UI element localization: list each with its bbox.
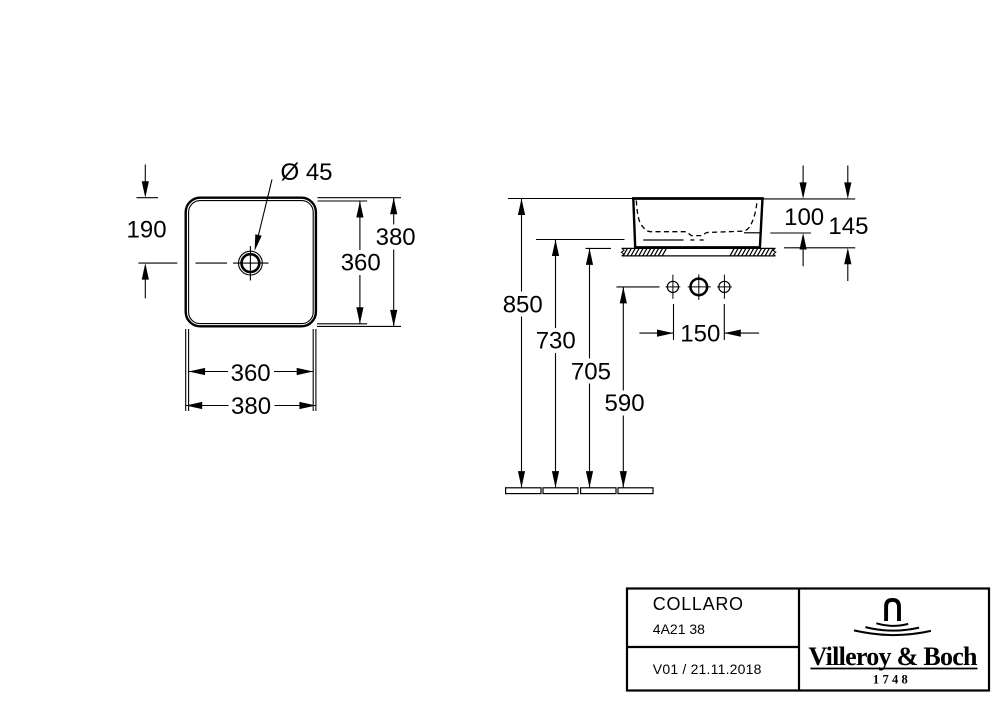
basin outer rim (top view) (186, 198, 316, 327)
bottom dim extension left inner (188, 329, 190, 411)
dim 380 bottom left arrowhead (186, 402, 203, 409)
dim 590 vertical line upper (622, 287, 624, 391)
dim 100 top arrowhead (800, 182, 807, 199)
dim 730 vertical line upper (555, 240, 557, 329)
svg-text:100: 100 (784, 204, 824, 231)
dim 705 bottom arrowhead (586, 471, 593, 488)
dim 150 right extension line (723, 304, 725, 340)
dim 380 vertical line lower (393, 250, 395, 327)
dim 100 top arrow shaft (802, 166, 804, 188)
SIDEVIEW (503, 166, 869, 494)
dim 145 top arrow shaft (847, 166, 849, 188)
logo arch symbol (886, 600, 899, 621)
drain level centerline solid (643, 239, 683, 241)
dim 150 right arrowhead (724, 330, 741, 337)
TITLEBLOCK (627, 589, 989, 691)
svg-text:Ø 45: Ø 45 (281, 159, 333, 186)
dim 150 left arrowhead (657, 330, 674, 337)
drain crosshair vertical (249, 246, 251, 281)
dim 730 bottom arrowhead (552, 471, 559, 488)
countertop hatching left (623, 248, 666, 256)
dim 100 extension line (770, 232, 811, 234)
dim 150 left extension line (673, 304, 675, 340)
dim 100 bottom arrow shaft (802, 245, 804, 267)
drain hole inner circle (242, 254, 260, 272)
title block vertical divider (798, 589, 800, 691)
dim 380 bottom line right (275, 405, 316, 407)
right tap hole crosshair vertical (723, 275, 725, 299)
dim 850 top arrowhead (518, 199, 525, 216)
basin bottom edge (634, 246, 760, 248)
dim 730 vertical line lower (555, 353, 557, 488)
right dim extension inner bottom (317, 323, 367, 325)
logo underline (810, 668, 977, 670)
dim 380 bottom arrowhead (390, 310, 397, 327)
svg-text:705: 705 (571, 358, 611, 385)
svg-text:1748: 1748 (873, 672, 911, 686)
left tap hole crosshair vertical (672, 275, 674, 299)
basin inner rim (top view) (189, 201, 314, 324)
dim 190 bottom arrowhead (142, 263, 149, 280)
right dim extension outer bottom (317, 325, 401, 327)
bottom dim extension left outer (185, 329, 187, 411)
dim 360 bottom line left (189, 371, 228, 373)
right tap hole circle (719, 281, 730, 292)
right dim extension inner top (318, 200, 368, 202)
horizontal centerline dash (196, 262, 228, 264)
countertop hatching right (730, 248, 773, 256)
dim 380 vertical line upper (393, 198, 395, 225)
svg-text:380: 380 (231, 393, 271, 420)
top reference line left of basin (508, 198, 633, 200)
title block outer border (627, 589, 989, 691)
center hole crosshair horizontal (688, 286, 711, 288)
svg-text:V01 / 21.11.2018: V01 / 21.11.2018 (653, 661, 762, 677)
drain crosshair horizontal (233, 262, 269, 264)
dim 145 bottom arrowhead (844, 248, 851, 264)
dim 705 vertical line lower (589, 384, 591, 488)
bottom dim extension right inner (312, 329, 314, 411)
drain level centerline dash 2 (700, 239, 704, 241)
top reference line right of basin (763, 198, 855, 200)
dim 380 bottom right arrowhead (299, 402, 316, 409)
logo ripple 3 (854, 630, 931, 635)
left tap hole crosshair horizontal (666, 286, 681, 288)
dim 705 top arrowhead (586, 248, 593, 265)
dim 360 bottom right arrowhead (297, 368, 314, 375)
dim 360 bottom left arrowhead (189, 368, 206, 375)
right dim extension outer top (318, 197, 402, 199)
title block horizontal divider (627, 646, 799, 648)
countertop top line (622, 247, 776, 249)
dim 380 bottom line left (186, 405, 229, 407)
svg-text:730: 730 (536, 328, 576, 355)
left tap hole circle (667, 281, 678, 292)
dim 145 top arrowhead (844, 182, 851, 199)
floor tile 2 (543, 488, 578, 494)
dim 360 vertical line upper (359, 201, 361, 250)
dim 590 top arrowhead (620, 287, 627, 304)
floor tile 1 (506, 488, 541, 494)
svg-text:4A21 38: 4A21 38 (653, 621, 705, 637)
svg-text:850: 850 (503, 291, 543, 318)
logo ripple 1 (876, 623, 908, 625)
dim 190 top extension stub (137, 197, 159, 199)
countertop right break edge (773, 248, 776, 256)
dim 360 vertical line lower (359, 275, 361, 324)
basin right wall (760, 199, 763, 248)
svg-text:145: 145 (828, 213, 868, 240)
right tap hole crosshair horizontal (717, 286, 732, 288)
dim 730 top arrowhead (552, 240, 559, 257)
bottom dim extension right outer (315, 329, 317, 411)
svg-text:Villeroy & Boch: Villeroy & Boch (809, 642, 979, 671)
dim 590 bottom arrowhead (620, 471, 627, 488)
svg-text:590: 590 (605, 390, 645, 417)
dim 150 left line (639, 332, 673, 334)
dim 190 top arrow shaft (144, 165, 146, 187)
dim 850 bottom arrowhead (518, 471, 525, 488)
svg-text:COLLARO: COLLARO (653, 594, 744, 614)
basin top edge (side view) (632, 197, 764, 200)
dim 360 bottom arrowhead (356, 307, 363, 324)
dim 590 extension line (616, 286, 659, 288)
svg-text:150: 150 (680, 321, 720, 348)
dim 360 bottom line right (274, 371, 313, 373)
basin left wall (633, 199, 635, 248)
interior bottom line right (744, 232, 760, 234)
leader arrowhead (255, 234, 262, 251)
dim 150 right line (724, 332, 759, 334)
dim 190 top arrowhead (142, 181, 149, 198)
drain level centerline dashes (690, 239, 694, 241)
dim 850 vertical line lower (521, 317, 523, 488)
dim 705 vertical line upper (589, 248, 591, 358)
dim 730 extension line (536, 239, 625, 241)
dim 360 top arrowhead (356, 201, 363, 218)
countertop left break edge (621, 248, 624, 256)
drain hole outer circle (239, 251, 263, 275)
dim 190 bottom arrow shaft (144, 275, 146, 299)
dim 145 extension line (784, 247, 855, 249)
dim 190 bottom extension line (138, 262, 177, 264)
svg-text:360: 360 (341, 249, 381, 276)
basin interior dashed outline (636, 201, 757, 236)
svg-text:360: 360 (231, 360, 271, 387)
dim 705 extension stub (586, 247, 612, 249)
floor tile 4 (618, 488, 653, 494)
dim 850 vertical line upper (521, 199, 523, 292)
floor tile 3 (581, 488, 616, 494)
svg-text:190: 190 (127, 217, 167, 244)
logo ripple 2 (865, 627, 919, 630)
center hole crosshair vertical (698, 274, 700, 300)
countertop bottom line (622, 255, 776, 257)
TOPVIEW (127, 159, 416, 420)
leader line for hole diameter (256, 180, 272, 245)
center faucet hole circle (691, 279, 708, 296)
dim 145 bottom arrow shaft (847, 260, 849, 282)
drain hole center dot (250, 262, 252, 264)
dim 590 vertical line lower (622, 416, 624, 488)
svg-text:380: 380 (376, 224, 416, 251)
dim 100 bottom arrowhead (800, 233, 807, 250)
dim 380 top arrowhead (390, 198, 397, 215)
